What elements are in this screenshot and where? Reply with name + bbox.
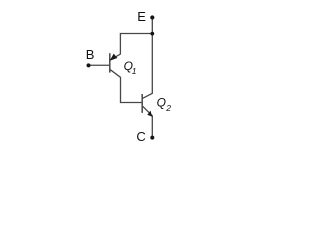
svg-text:2: 2 (165, 103, 171, 113)
svg-text:B: B (86, 47, 95, 62)
svg-text:E: E (137, 9, 146, 24)
svg-text:Q: Q (157, 95, 166, 109)
svg-text:C: C (136, 129, 145, 144)
svg-text:1: 1 (132, 66, 137, 76)
